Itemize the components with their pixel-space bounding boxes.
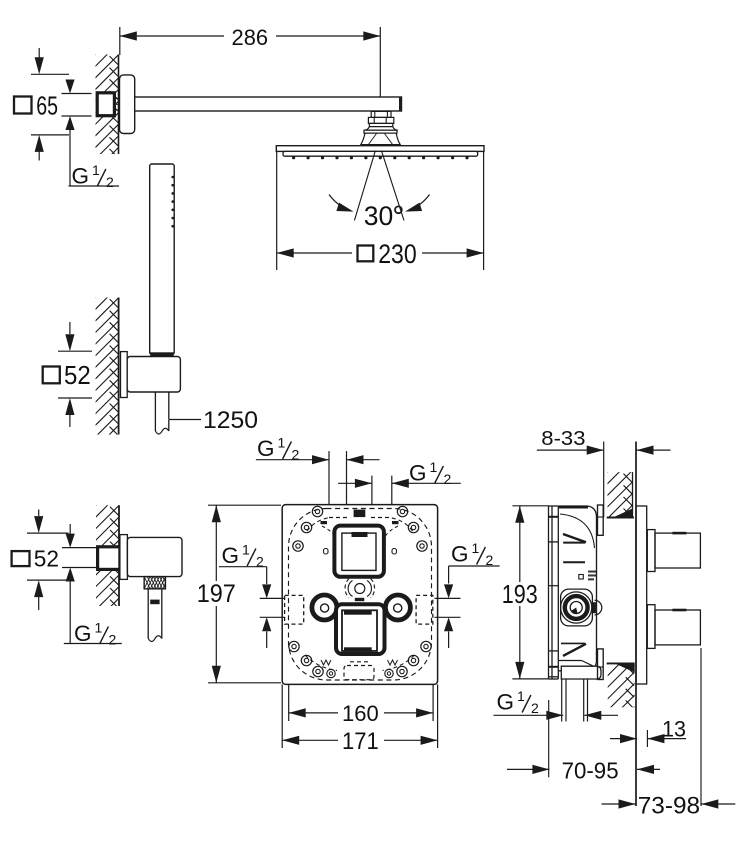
svg-text:G: G [257, 436, 275, 461]
fitting square G1/2 wall1 [97, 93, 114, 116]
handle lower outer [336, 604, 385, 654]
fitting square wall3 [98, 547, 120, 570]
valve min-max marks [579, 575, 584, 580]
valve rib mid [563, 561, 585, 563]
supply pipe wall3 [62, 547, 98, 549]
valve body bottom profile [558, 660, 581, 662]
port ext line d [391, 476, 393, 505]
handle lower bottom bar [344, 647, 372, 651]
port ext line a [328, 451, 330, 505]
trim plate [282, 505, 437, 685]
svg-text:65: 65 [36, 93, 58, 121]
valve front plate strip [548, 506, 550, 679]
port lower large [655, 610, 700, 645]
dim 13 ext [646, 730, 648, 747]
dim 193 ext bottom [512, 678, 548, 680]
dim 65 inner arrow top [65, 80, 74, 94]
svg-text:G: G [451, 542, 469, 567]
spray line right [381, 151, 404, 221]
svg-text:2: 2 [444, 471, 452, 487]
dim 160 arrows [289, 708, 306, 717]
dim 65 inner bottom line [62, 115, 92, 117]
label square-52 holder [43, 367, 60, 384]
elbow body [127, 537, 182, 576]
dim 230 line [277, 252, 352, 254]
valve strip bands [549, 516, 559, 518]
svg-text:G: G [222, 543, 240, 568]
handle upper outer [334, 526, 384, 577]
svg-text:G: G [409, 461, 427, 486]
dim 193 line [519, 506, 521, 582]
svg-text:2: 2 [292, 447, 300, 463]
svg-text:73-98: 73-98 [638, 793, 700, 819]
dim 65 outer bottom line [31, 134, 69, 136]
svg-text:1: 1 [95, 620, 103, 636]
handle upper inner [342, 533, 376, 570]
back mounting plate [636, 506, 647, 684]
svg-text:1: 1 [472, 540, 480, 556]
spray arc arrow right [409, 195, 430, 211]
hose cone [147, 589, 149, 639]
wall hatch lower-left [118, 505, 120, 606]
valve mounting tab top [598, 505, 604, 535]
wall hatch right-bottom [604, 637, 635, 761]
dim 52b inner arrow bottom + G12 leader [66, 568, 75, 582]
dim 160 line [289, 712, 338, 714]
handle lower top bar [344, 610, 372, 614]
head connector nut A [371, 111, 391, 117]
shower arm [135, 97, 402, 111]
svg-text:197: 197 [197, 580, 236, 608]
dim 52 bottom line [58, 397, 92, 399]
svg-text:52: 52 [64, 360, 91, 390]
svg-text:1: 1 [242, 542, 250, 558]
svg-text:286: 286 [232, 25, 269, 50]
dim 160 ext [288, 684, 290, 721]
valve wedge top [563, 534, 586, 542]
hand shower dark band [150, 352, 173, 356]
rough-in box dashed details [289, 509, 432, 681]
wall surface line right fig [635, 442, 637, 807]
valve body outline [558, 506, 596, 671]
hand shower spray dots [171, 176, 174, 179]
dim 171 line [282, 739, 338, 741]
dim 197 ext bottom [208, 682, 281, 684]
skirt interior lines [369, 134, 377, 145]
dim 52b outer top line [27, 532, 69, 534]
dim 193 arrows [515, 506, 524, 523]
dim 171 ext [281, 684, 283, 748]
spray arc arrow left [329, 195, 350, 211]
svg-text:G: G [72, 164, 90, 189]
valve bottom boss [561, 666, 601, 679]
valve side bump [595, 600, 602, 615]
hand shower body [150, 164, 175, 354]
dimension 286 arrows [120, 31, 137, 40]
svg-text:13: 13 [662, 716, 686, 741]
dim side-right lines [435, 597, 461, 599]
dim G12 row2 [338, 482, 372, 484]
dim 171 arrows [282, 736, 299, 745]
dim side-left lines [260, 597, 285, 599]
dim G12 studs line [494, 714, 564, 716]
port lower small [647, 605, 655, 649]
wall hatch right-top [632, 472, 634, 517]
dim 193 ext top [512, 505, 548, 507]
supply stud right [583, 679, 585, 722]
head connector flare D [364, 127, 398, 131]
svg-text:70-95: 70-95 [562, 757, 619, 783]
svg-text:1: 1 [92, 162, 100, 178]
svg-text:52: 52 [34, 545, 59, 571]
head connector nut B [368, 117, 393, 123]
svg-text:1: 1 [278, 435, 286, 451]
svg-text:2: 2 [106, 174, 114, 190]
dim 13 line [610, 738, 637, 740]
head ball joint skirt [361, 133, 400, 144]
dim 8-33 line [537, 449, 604, 451]
head lip [283, 151, 478, 156]
shower hose upper [154, 392, 156, 431]
svg-text:30: 30 [364, 201, 393, 231]
svg-text:1: 1 [517, 688, 525, 704]
dim 52 arrows [69, 322, 71, 334]
dim 230 arrows [277, 248, 294, 257]
supply stud left [561, 679, 563, 722]
flange escutcheon wall1 [120, 75, 135, 134]
label square-65 [14, 97, 32, 114]
dim 52b outer arrows [38, 510, 40, 517]
svg-text:160: 160 [342, 701, 379, 726]
svg-text:G: G [74, 621, 92, 646]
hose nut knurled [144, 577, 169, 589]
union ring left [312, 595, 337, 620]
valve mounting tab bottom [598, 649, 604, 680]
svg-text:G: G [497, 690, 515, 715]
valve cartridge housing [561, 589, 593, 626]
svg-text:230: 230 [378, 239, 417, 269]
dimension 286 line [120, 35, 224, 37]
wall hatch middle-left [118, 298, 120, 435]
port ext line c [371, 476, 373, 505]
head top plate [276, 146, 484, 152]
shower arm end cap [399, 98, 402, 111]
head connector ring C [369, 123, 392, 126]
hose ferrule [150, 600, 159, 605]
dim G12 row1 [256, 459, 329, 461]
svg-text:193: 193 [502, 581, 538, 609]
dim 65 outer top line [31, 73, 69, 75]
valve cartridge circles [561, 592, 592, 623]
svg-text:1250: 1250 [203, 407, 258, 434]
wire dim-286 extension left [119, 27, 121, 55]
handle upper top bar [352, 532, 368, 537]
union ring right [385, 595, 410, 620]
dim 52 top line [58, 350, 92, 352]
handle lower inner [342, 610, 377, 651]
dim 197 ext top [208, 504, 281, 506]
svg-text:1: 1 [430, 459, 438, 475]
dim 230 ext left [276, 152, 278, 270]
port upper large [655, 533, 700, 568]
valve cartridge wedge [571, 608, 577, 614]
dim 230 ext right [483, 152, 485, 270]
wire dim-286 extension right / head axis [379, 27, 381, 125]
port ext line b [346, 451, 348, 505]
dim 197 line [215, 505, 217, 581]
holder body [127, 357, 180, 393]
dim 73-98 ext right [700, 648, 702, 806]
label square-52 elbow [12, 551, 30, 566]
svg-text:2: 2 [109, 632, 117, 648]
label square-230 [358, 246, 374, 262]
valve body top dark edge [559, 506, 588, 508]
dim 197 arrows [212, 505, 221, 522]
dim 70-95 line [507, 768, 549, 770]
dim 73-98 line [602, 803, 636, 805]
spray line left [354, 151, 375, 221]
valve wedge bottom [563, 644, 586, 656]
wall hatch top-left [118, 55, 120, 155]
dim 65 inner top line [62, 93, 92, 95]
svg-text:8-33: 8-33 [541, 427, 585, 450]
head connector collar E [364, 130, 397, 133]
holder wall plate [121, 352, 128, 398]
valve dome arc [560, 514, 595, 548]
hose break wavy [155, 428, 168, 434]
svg-text:2: 2 [531, 700, 539, 716]
elbow flange plate [120, 535, 128, 580]
dim 65 inner arrow bottom + G1/2 leader [65, 116, 74, 130]
label 1250 leader [169, 419, 201, 421]
head nozzle dots [292, 156, 295, 159]
dim 70-95 ext left [548, 700, 550, 777]
dim 8-33 ext left [603, 442, 605, 518]
thread ribs wall1 [114, 98, 118, 100]
dim 65 outer arrows [38, 48, 40, 58]
port upper small [647, 530, 655, 572]
hose break wavy 2 [148, 636, 162, 642]
svg-text:171: 171 [342, 728, 379, 755]
dim 52b outer bottom line [27, 579, 69, 581]
dim 52b inner arrow top [69, 524, 71, 534]
